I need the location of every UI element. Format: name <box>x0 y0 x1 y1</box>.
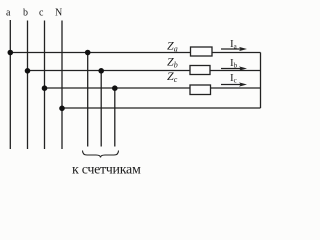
svg-text:Ia: Ia <box>230 38 238 51</box>
svg-text:a: a <box>6 8 11 19</box>
svg-text:N: N <box>55 8 62 19</box>
junction dot tap2 <box>98 68 104 74</box>
wire phase b horizontal <box>28 70 261 72</box>
svg-text:Zb: Zb <box>167 55 178 70</box>
junction dot a <box>8 50 14 56</box>
wire meter tap 2 <box>100 71 102 147</box>
junction dot tap1 <box>85 50 91 56</box>
svg-text:Ib: Ib <box>230 57 238 70</box>
wire meter tap 3 <box>114 88 116 147</box>
wire bus c (vertical) <box>44 21 46 150</box>
current arrow Ib <box>221 66 247 70</box>
svg-text:b: b <box>23 8 28 19</box>
svg-text:Zc: Zc <box>167 69 178 84</box>
junction dot N <box>59 106 65 112</box>
wire meter tap 1 <box>87 53 89 147</box>
impedance Z_c box <box>190 85 211 95</box>
wire return bus right vertical <box>260 53 262 109</box>
junction dot b <box>25 68 31 74</box>
brace to meters <box>83 151 119 158</box>
wire phase a horizontal <box>10 52 260 54</box>
wire bus N (vertical) <box>61 21 63 150</box>
svg-text:Ic: Ic <box>230 72 237 85</box>
wire bus a (vertical) <box>9 20 11 149</box>
wire neutral return horizontal <box>62 107 261 109</box>
junction dot tap3 <box>112 85 118 91</box>
svg-text:c: c <box>39 8 44 19</box>
current arrow Ic <box>221 82 247 86</box>
junction dot c <box>42 85 48 91</box>
impedance Z_b box <box>190 66 210 75</box>
svg-text:к счетчикам: к счетчикам <box>72 163 141 178</box>
svg-text:Za: Za <box>167 39 178 54</box>
impedance Z_a box <box>191 47 213 56</box>
current arrow Ia <box>221 47 247 51</box>
wire bus b (vertical) <box>27 21 29 150</box>
wire phase c horizontal <box>45 87 261 89</box>
